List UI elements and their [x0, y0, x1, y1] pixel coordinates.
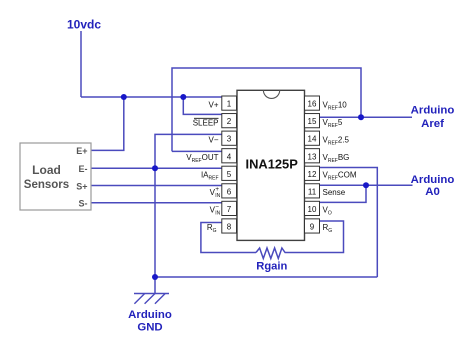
svg-text:12: 12: [308, 170, 317, 179]
svg-text:INA125P: INA125P: [246, 156, 299, 171]
wire Aref: [320, 116, 413, 118]
node junction dot A0: [363, 182, 369, 188]
svg-text:4: 4: [227, 152, 232, 161]
svg-text:3: 3: [227, 135, 232, 144]
pin numbers right: [308, 100, 317, 232]
svg-text:2: 2: [227, 117, 232, 126]
svg-text:5: 5: [227, 170, 232, 179]
svg-text:13: 13: [308, 152, 317, 161]
wire Rg pin9 to resistor: [285, 221, 344, 253]
svg-text:1: 1: [227, 100, 232, 109]
svg-text:SLEEP: SLEEP: [193, 118, 219, 127]
svg-text:8: 8: [227, 222, 232, 231]
svg-text:E-: E-: [79, 164, 88, 174]
svg-text:V+: V+: [208, 100, 218, 109]
wire E+ branch: [91, 97, 124, 150]
wire V- branch: [155, 134, 222, 168]
wire ground horizontal: [155, 276, 377, 278]
svg-text:A0: A0: [425, 186, 440, 198]
svg-text:−: −: [215, 204, 219, 211]
wire E- to IAref: [91, 167, 222, 169]
svg-text:Arduino: Arduino: [411, 104, 455, 116]
svg-text:6: 6: [227, 187, 232, 196]
svg-text:9: 9: [310, 222, 315, 231]
ground: [134, 294, 169, 304]
svg-text:V−: V−: [208, 135, 218, 144]
svg-text:14: 14: [308, 135, 317, 144]
wire Rg pin8 to resistor: [201, 223, 256, 253]
wire Vo stub: [320, 185, 367, 202]
wire V+ main horizontal: [81, 96, 222, 98]
svg-text:+: +: [215, 186, 219, 193]
svg-text:16: 16: [308, 100, 317, 109]
svg-text:E+: E+: [76, 146, 87, 156]
wire VREFOUT stub: [172, 150, 222, 152]
pin numbers left: [227, 100, 232, 232]
wire V+ SLEEP hook: [183, 97, 222, 114]
svg-text:Sense: Sense: [323, 188, 346, 197]
svg-text:IN: IN: [215, 193, 220, 199]
pin labels right: [323, 101, 357, 235]
svg-text:Aref: Aref: [421, 118, 444, 130]
load sensors box: [20, 143, 91, 210]
svg-text:IN: IN: [215, 211, 220, 217]
pin boxes right 16-9: [305, 96, 320, 233]
node junction dot E-: [152, 165, 158, 171]
svg-text:Load: Load: [32, 163, 61, 177]
svg-text:Arduino: Arduino: [411, 174, 455, 186]
node junction dot V+: [180, 94, 186, 100]
wire GND drop: [154, 168, 156, 293]
svg-text:S+: S+: [76, 181, 87, 191]
resistor Rgain zigzag: [256, 248, 285, 259]
node junction dot Aref: [358, 114, 364, 120]
svg-text:11: 11: [308, 187, 317, 196]
svg-text:7: 7: [227, 205, 232, 214]
node junction dot E+: [121, 94, 127, 100]
svg-text:10vdc: 10vdc: [67, 18, 101, 32]
svg-text:S-: S-: [79, 199, 88, 209]
svg-text:Rgain: Rgain: [256, 261, 287, 273]
pin boxes left 1-8: [222, 96, 237, 233]
wire top rectangle VREFOUT to VREF5: [172, 68, 361, 151]
svg-text:15: 15: [308, 117, 317, 126]
svg-text:Sensors: Sensors: [24, 179, 69, 191]
wire S+ to Vin+: [91, 185, 222, 187]
wire S- to Vin-: [91, 202, 222, 204]
svg-text:GND: GND: [137, 322, 162, 334]
svg-text:10: 10: [308, 205, 317, 214]
op-amp U1 INA125P body: [237, 90, 305, 240]
wire Sense stub and A0: [320, 184, 413, 186]
node junction dot GND: [152, 274, 158, 280]
svg-text:Arduino: Arduino: [128, 309, 172, 321]
wire 10vdc vertical drop: [80, 31, 82, 97]
pin labels left: [186, 100, 220, 234]
wire VREFCOM to ground: [320, 168, 378, 278]
